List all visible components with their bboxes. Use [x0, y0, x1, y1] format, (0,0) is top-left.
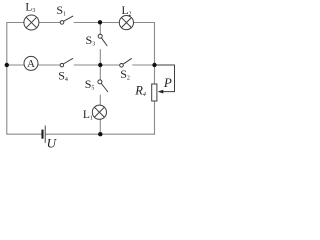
wire row2 left border to ammeter: [7, 64, 24, 66]
node left row2 junction: [5, 63, 9, 67]
wire S3 to mid junction: [99, 50, 101, 66]
wire mid junction down to S5: [99, 65, 101, 80]
node mid row2 junction: [98, 63, 102, 67]
switch S4: [60, 58, 73, 67]
svg-text:U: U: [47, 136, 58, 150]
lamp L1: [92, 105, 106, 119]
battery plate short thick: [41, 130, 43, 139]
resistor R4 body: [152, 84, 157, 101]
wire left border: [6, 23, 8, 135]
wire L2 to top-right corner: [134, 22, 155, 24]
wire S4 to mid junction: [74, 64, 119, 66]
wire right column upper: [154, 23, 156, 85]
ammeter A body: [24, 56, 38, 70]
switch S1: [60, 16, 73, 24]
node bottom junction: [98, 132, 102, 136]
node top junction: [98, 20, 102, 24]
wiper arrowhead: [158, 90, 164, 94]
svg-text:P: P: [163, 75, 172, 90]
svg-text:A: A: [27, 58, 35, 70]
wire right column lower: [154, 101, 156, 134]
wire battery to bottom-left corner: [7, 133, 41, 135]
wire ammeter to S4: [38, 64, 60, 66]
wire top junction down to S3: [99, 22, 101, 34]
wire S2 to right junction: [133, 64, 155, 66]
wire S5 to lamp L1: [99, 95, 101, 105]
wiper arm hook to P: [155, 65, 175, 92]
wire S1 to top junction and on to L2: [74, 22, 119, 24]
wire top-left corner to lamp L3: [7, 22, 24, 24]
battery plate long thin: [44, 126, 46, 143]
lamp L2: [119, 16, 133, 30]
switch S5: [98, 80, 108, 92]
wire L1 to bottom junction: [99, 119, 101, 134]
lamp L3: [24, 15, 39, 30]
wire bottom right to battery: [46, 133, 154, 135]
switch S3: [98, 34, 107, 46]
node right row2 junction: [152, 63, 156, 67]
wire L3 to switch S1: [39, 22, 60, 24]
switch S2: [120, 58, 132, 67]
